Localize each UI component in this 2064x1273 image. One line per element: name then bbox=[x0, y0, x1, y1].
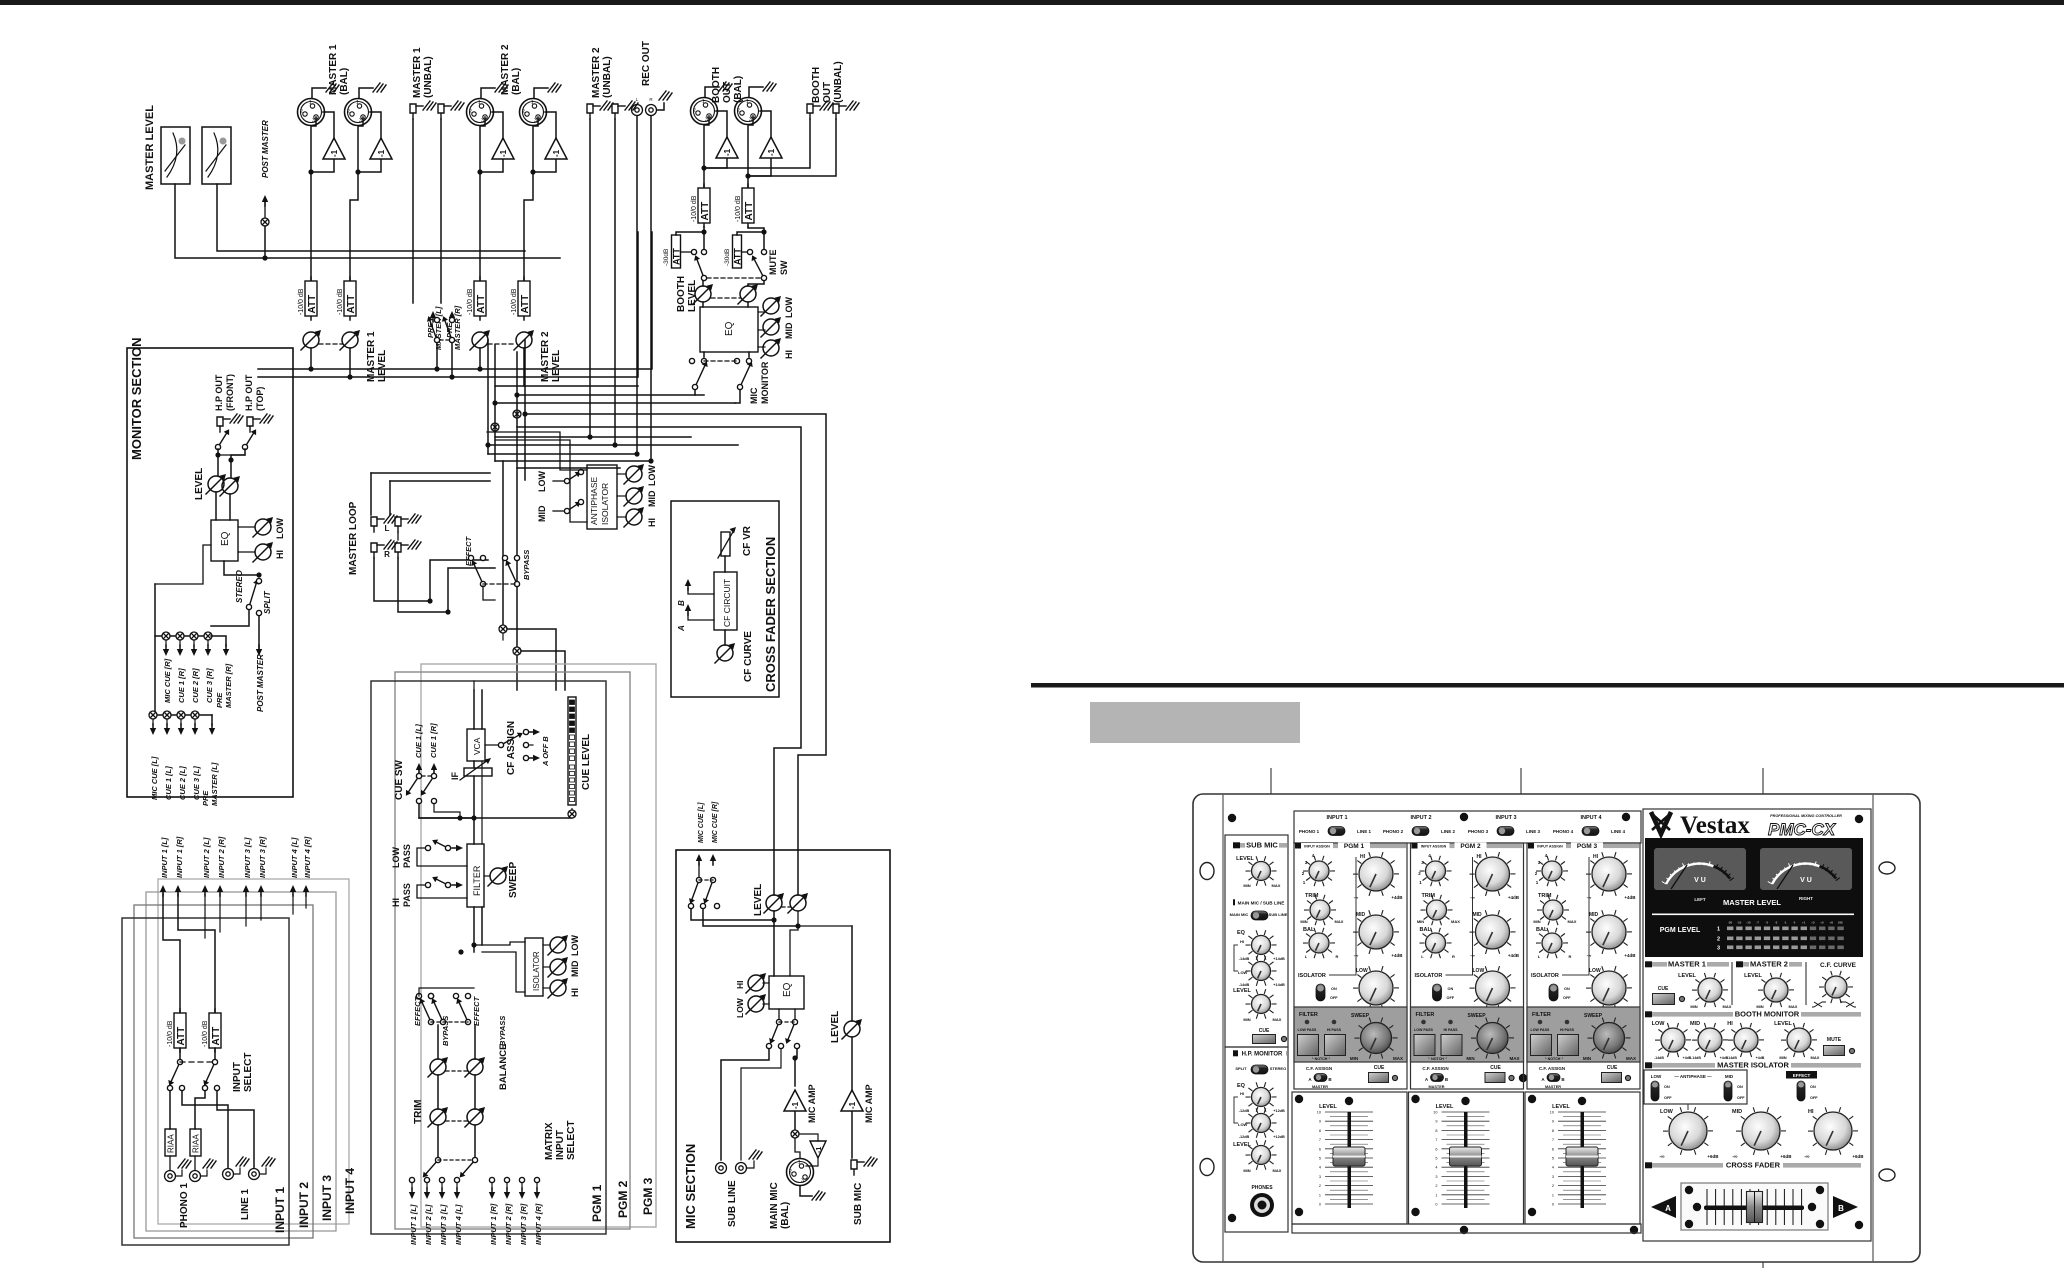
screw fader PGM3 tl bbox=[1528, 1095, 1536, 1103]
svg-text:H.P OUT: H.P OUT bbox=[244, 374, 254, 411]
svg-text:+4dB: +4dB bbox=[1391, 953, 1403, 958]
led master1 cue bbox=[1679, 996, 1684, 1001]
svg-text:+12dB: +12dB bbox=[1273, 1135, 1285, 1139]
svg-text:SUB LINE: SUB LINE bbox=[1269, 912, 1288, 917]
screw bottom-mid2 bbox=[1630, 1226, 1638, 1234]
bus wire 437 bbox=[495, 436, 691, 438]
wire bbox=[411, 1183, 413, 1189]
knob PGM3 SWEEP bbox=[1588, 1018, 1631, 1059]
svg-text:SUB MIC: SUB MIC bbox=[1246, 841, 1278, 850]
wire cue out R bbox=[434, 804, 460, 818]
svg-text:1: 1 bbox=[309, 100, 312, 106]
svg-text:LINE 1: LINE 1 bbox=[1357, 829, 1372, 834]
cross fader knob bbox=[1747, 1192, 1763, 1223]
wire pgm effect up bbox=[419, 988, 474, 996]
svg-text:-12dB: -12dB bbox=[1239, 1109, 1250, 1113]
svg-text:MAX: MAX bbox=[1510, 1056, 1520, 1061]
wire eq down bbox=[224, 561, 259, 575]
svg-text:-1: -1 bbox=[767, 148, 776, 156]
filter led lowpass PGM2 bbox=[1421, 1020, 1426, 1025]
svg-text:(BAL): (BAL) bbox=[511, 68, 522, 95]
led PGM2 cue bbox=[1509, 1075, 1514, 1080]
svg-text:MAX: MAX bbox=[1393, 1056, 1403, 1061]
wire meter R feed bbox=[217, 184, 525, 251]
knob SUB MIC LEVEL bbox=[1246, 856, 1277, 886]
svg-text:7: 7 bbox=[1552, 1138, 1554, 1142]
screw fader PGM2 t bbox=[1461, 1097, 1469, 1105]
svg-text:+4dB: +4dB bbox=[1508, 953, 1520, 958]
wire loop down R bbox=[398, 558, 448, 612]
svg-text:MASTER 1: MASTER 1 bbox=[366, 331, 377, 382]
matrix contact INPUT 1 [L] bbox=[409, 1177, 414, 1182]
pot monitor eq HI bbox=[253, 542, 273, 562]
RIAA box R bbox=[190, 1129, 201, 1156]
connector MASTER 2 BAL XLR-R bbox=[520, 99, 547, 126]
svg-text:PHONO 1: PHONO 1 bbox=[179, 1183, 190, 1228]
svg-text:MIN: MIN bbox=[1583, 1056, 1591, 1061]
INPUT 1 box bbox=[122, 918, 289, 1245]
wire eq hi bbox=[238, 551, 255, 553]
Vestax logo mark bbox=[1651, 812, 1671, 834]
PGM 3 fader ticks bbox=[1550, 1111, 1606, 1207]
connector H.P OUT FRONT bbox=[217, 417, 230, 432]
svg-text:LEVEL: LEVEL bbox=[1233, 988, 1251, 994]
button PGM1 CUE bbox=[1368, 1072, 1389, 1083]
svg-text:10: 10 bbox=[1317, 1111, 1321, 1115]
switch pre/post R bbox=[442, 316, 455, 343]
svg-text:LEVEL: LEVEL bbox=[753, 884, 764, 916]
PGM 2 fader knob bbox=[1450, 1147, 1482, 1166]
svg-text:POST MASTER: POST MASTER bbox=[261, 120, 270, 178]
svg-text:LEFT: LEFT bbox=[1694, 897, 1705, 902]
PGM 2 fader ticks bbox=[1433, 1111, 1489, 1207]
toggle SPLIT/STEREO bbox=[1251, 1065, 1268, 1074]
cue bus to slider bbox=[419, 809, 572, 818]
toggle PHONO4/LINE4 bbox=[1582, 827, 1599, 836]
wire riaa R bbox=[195, 1091, 205, 1129]
svg-text:INPUT 1 [L]: INPUT 1 [L] bbox=[409, 1204, 418, 1245]
svg-text:└ NOTCH ┘: └ NOTCH ┘ bbox=[1311, 1056, 1331, 1061]
svg-text:INPUT 3 [R]: INPUT 3 [R] bbox=[519, 1203, 528, 1245]
cue bus row R bbox=[155, 635, 211, 637]
svg-text:MAX: MAX bbox=[1273, 1017, 1282, 1022]
svg-text:BOOTH: BOOTH bbox=[711, 67, 722, 103]
filter led hipass PGM3 bbox=[1565, 1020, 1570, 1025]
wire mute R down bbox=[748, 281, 764, 286]
wire -30att L out bbox=[681, 251, 692, 253]
CF CIRCUIT box bbox=[714, 572, 737, 630]
svg-text:TRIM: TRIM bbox=[1538, 893, 1552, 899]
svg-text:EQ: EQ bbox=[1237, 1083, 1246, 1089]
wire M2 unbal R bbox=[614, 119, 616, 445]
filter led lowpass PGM1 bbox=[1305, 1020, 1310, 1025]
post master junction bbox=[261, 218, 269, 226]
svg-text:OFF: OFF bbox=[1447, 996, 1455, 1000]
PGM 1 box bbox=[371, 681, 606, 1234]
bus wire antiphase send L bbox=[525, 414, 826, 895]
wire hp join bbox=[218, 454, 245, 456]
PGM 1 fader knob bbox=[1333, 1147, 1365, 1166]
wire loop top L bbox=[371, 472, 490, 474]
wire input1 R down bbox=[178, 894, 215, 1013]
button PGM3 LOW PASS bbox=[1530, 1034, 1552, 1056]
bus wire mic monitor L bbox=[517, 394, 695, 396]
svg-text:LOW: LOW bbox=[735, 997, 745, 1018]
wire bbox=[166, 719, 168, 725]
connector BOOTH OUT BAL L bbox=[691, 98, 718, 125]
terminal INPUT 2 [R] bbox=[217, 885, 223, 896]
wire loop right2 bbox=[448, 568, 495, 612]
gang pgm effect bbox=[431, 1021, 468, 1023]
pot pgm isolator HI bbox=[548, 978, 568, 998]
svg-text:1: 1 bbox=[1552, 1193, 1554, 1197]
terminal MIC CUE [R] bbox=[163, 645, 169, 656]
switch mic monitor L bbox=[692, 361, 707, 389]
wire att-sw R bbox=[214, 1048, 216, 1059]
INPUT 2 box bbox=[134, 905, 313, 1238]
svg-text:MASTER LEVEL: MASTER LEVEL bbox=[1723, 898, 1781, 907]
svg-text:BYPASS: BYPASS bbox=[522, 550, 531, 580]
gang mic monitor bbox=[704, 360, 737, 362]
terminal B bbox=[685, 579, 691, 590]
svg-text:+6dB: +6dB bbox=[1707, 1154, 1719, 1159]
gang booth level bbox=[711, 297, 740, 299]
wire XLR M1L bbox=[311, 117, 316, 281]
pot pgm isolator LOW bbox=[548, 935, 568, 955]
PGM LEVEL led meter bbox=[1717, 921, 1844, 952]
wire booth eq in L bbox=[702, 302, 704, 307]
screw fader PGM1 t bbox=[1345, 1097, 1353, 1105]
svg-text:R: R bbox=[1452, 954, 1455, 959]
wire loop vert1 bbox=[370, 473, 372, 515]
pot MASTER 2 LEVEL L bbox=[470, 330, 490, 350]
PGM ISOLATOR box bbox=[525, 938, 543, 996]
svg-text:1: 1 bbox=[702, 99, 705, 105]
svg-text:-1: -1 bbox=[330, 149, 339, 157]
isolator link PGM3 bbox=[1562, 857, 1589, 975]
svg-text:ATT: ATT bbox=[700, 202, 711, 221]
cue junction MIC CUE [L] bbox=[149, 711, 157, 719]
CROSS FADER SECTION box bbox=[671, 501, 779, 697]
connector MAIN MIC BAL XLR bbox=[787, 1159, 814, 1186]
gang input select bbox=[180, 1061, 215, 1063]
cue junction CUE 1 [R] bbox=[176, 632, 184, 640]
svg-text:3: 3 bbox=[1717, 946, 1720, 952]
connector MASTER 1 BAL XLR-L bbox=[298, 99, 325, 126]
svg-text:-14dB: -14dB bbox=[1239, 957, 1250, 961]
MONITOR SECTION box bbox=[127, 348, 293, 797]
isolator link PGM1 bbox=[1329, 857, 1356, 975]
svg-text:MAX: MAX bbox=[1723, 1004, 1732, 1009]
svg-text:INPUT 2 [L]: INPUT 2 [L] bbox=[202, 837, 211, 878]
svg-text:EQ: EQ bbox=[220, 531, 231, 546]
knob PGM2 EQ HI bbox=[1470, 852, 1516, 896]
matrix contact INPUT 4 [R] bbox=[534, 1177, 539, 1182]
svg-text:2: 2 bbox=[1717, 937, 1720, 943]
svg-text:MIN: MIN bbox=[1243, 883, 1250, 888]
meter MASTER LEVEL L bbox=[161, 127, 190, 184]
svg-text:-1: -1 bbox=[552, 149, 561, 157]
MIC SECTION box bbox=[676, 850, 890, 1242]
svg-text:ON: ON bbox=[1737, 1085, 1743, 1089]
svg-text:10: 10 bbox=[1550, 1111, 1554, 1115]
H.P. MONITOR header bbox=[1233, 1051, 1287, 1056]
wire curve bbox=[724, 630, 726, 645]
wire mic cue routing bbox=[691, 909, 774, 920]
svg-text:MIN: MIN bbox=[1690, 1004, 1697, 1009]
svg-text:MAIN MIC / SUB LINE: MAIN MIC / SUB LINE bbox=[1238, 901, 1285, 906]
wire trim-bal R bbox=[474, 1075, 476, 1109]
VU meter black panel bbox=[1645, 838, 1863, 957]
svg-text:OUT: OUT bbox=[822, 82, 833, 103]
screw fader PGM1 tl bbox=[1295, 1095, 1303, 1103]
bus wire antiphase send R bbox=[517, 427, 801, 895]
svg-text:1: 1 bbox=[1319, 1193, 1321, 1197]
svg-text:CUE: CUE bbox=[1490, 1065, 1501, 1071]
-30dB ATT L stub bbox=[676, 232, 704, 235]
svg-text:-10/0 dB: -10/0 dB bbox=[337, 288, 344, 315]
connector LINE1 L bbox=[223, 1169, 234, 1180]
svg-text:-∞: -∞ bbox=[1587, 953, 1592, 958]
terminal POST MASTER monitor bbox=[256, 645, 262, 656]
amplifier MASTER1 L bbox=[323, 138, 345, 159]
wire anti mid bbox=[617, 495, 626, 497]
amplifier mic -1 bbox=[810, 1141, 826, 1158]
connector SUB LINE L bbox=[716, 1163, 727, 1174]
rack slot hole bottom-left bbox=[1200, 1159, 1214, 1176]
terminal INPUT 3 [L] bbox=[243, 885, 249, 896]
terminal INPUT 3 [R] bbox=[258, 885, 264, 896]
switch matrix R bbox=[460, 1157, 478, 1177]
rack slot hole top-right bbox=[1879, 862, 1895, 874]
connector BOOTH UNBAL L bbox=[807, 104, 820, 119]
svg-text:STEREO: STEREO bbox=[235, 569, 244, 603]
wire micmon R out bbox=[735, 390, 740, 403]
rack ear line left bbox=[1222, 794, 1224, 1262]
PGM 2 fader box bbox=[1409, 1092, 1524, 1224]
cue junction CUE 2 [L] bbox=[177, 711, 185, 719]
amplifier MIC AMP sub bbox=[841, 1090, 863, 1111]
svg-text:INPUT 1: INPUT 1 bbox=[1326, 815, 1347, 821]
svg-text:LOW: LOW bbox=[391, 847, 401, 868]
svg-text:BALANCE: BALANCE bbox=[498, 1044, 509, 1090]
svg-text:C.F. CURVE: C.F. CURVE bbox=[1820, 962, 1857, 969]
svg-text:PGM LEVEL: PGM LEVEL bbox=[1660, 927, 1701, 934]
wire M1 unbal L bbox=[412, 119, 414, 303]
wire antiphase top1 bbox=[487, 432, 560, 440]
svg-text:REC OUT: REC OUT bbox=[641, 41, 652, 86]
wire mic level-eq2 bbox=[790, 911, 798, 976]
wire pgm1 L chain bbox=[473, 690, 475, 729]
svg-text:CUE LEVEL: CUE LEVEL bbox=[581, 734, 592, 790]
wire mic level-eq bbox=[773, 911, 775, 976]
svg-text:1: 1 bbox=[798, 1160, 801, 1166]
pot antiphase MID bbox=[624, 486, 644, 506]
switch pgm effect R2 bbox=[456, 998, 470, 1024]
wire split down bbox=[258, 616, 260, 649]
svg-text:C.F. ASSIGN: C.F. ASSIGN bbox=[1306, 1066, 1332, 1071]
led sub mic cue bbox=[1281, 1036, 1286, 1041]
svg-text:0: 0 bbox=[1435, 1203, 1437, 1207]
gang mic level bbox=[782, 906, 790, 908]
terminal PRE MASTER [L] bbox=[209, 724, 215, 735]
button PGM3 CUE bbox=[1601, 1072, 1622, 1083]
svg-text:LINE 1: LINE 1 bbox=[240, 1188, 251, 1220]
svg-text:ISOLATOR: ISOLATOR bbox=[600, 483, 610, 525]
cue feed wire L bbox=[502, 633, 504, 640]
svg-text:-1: -1 bbox=[499, 149, 508, 157]
svg-text:3: 3 bbox=[1552, 1175, 1554, 1179]
svg-text:MIN: MIN bbox=[1533, 919, 1540, 924]
svg-text:2: 2 bbox=[469, 109, 472, 115]
button PGM1 LOW PASS bbox=[1297, 1034, 1319, 1056]
terminal MIC CUE [L] bbox=[150, 724, 156, 735]
wire loop top R bbox=[390, 480, 490, 482]
svg-text:LOW: LOW bbox=[537, 471, 547, 492]
screw fader PGM3 bl bbox=[1528, 1208, 1536, 1216]
amplifier MASTER2 L bbox=[492, 138, 514, 159]
svg-text:OFF: OFF bbox=[1664, 1096, 1672, 1100]
terminal mic cue L bbox=[696, 854, 702, 865]
svg-text:-1: -1 bbox=[816, 1147, 823, 1153]
wire XLR M2R bbox=[524, 117, 538, 281]
svg-text:8: 8 bbox=[1435, 1129, 1437, 1133]
IF resistor bbox=[464, 768, 492, 776]
svg-text:-∞: -∞ bbox=[1804, 1154, 1810, 1160]
terminal CUE 2 [L] bbox=[178, 724, 184, 735]
svg-text:HI: HI bbox=[647, 518, 657, 527]
bus wire rec/master2 bbox=[495, 385, 638, 387]
svg-text:+4dB: +4dB bbox=[1624, 895, 1636, 900]
svg-text:HI: HI bbox=[275, 550, 285, 559]
svg-text:LEVEL: LEVEL bbox=[1678, 973, 1696, 979]
INPUT 3 selector group bbox=[1468, 815, 1541, 836]
svg-text:INPUT: INPUT bbox=[555, 1130, 566, 1160]
svg-text:+5: +5 bbox=[1820, 921, 1824, 925]
svg-text:LOW PASS: LOW PASS bbox=[1414, 1028, 1434, 1032]
svg-text:-∞: -∞ bbox=[1470, 895, 1475, 900]
ground rec out bbox=[657, 103, 664, 110]
svg-text:4: 4 bbox=[1435, 1166, 1437, 1170]
pot pgm trim L bbox=[428, 1107, 448, 1127]
wire M2L to bus bbox=[479, 348, 481, 369]
wire bbox=[456, 1183, 458, 1189]
booth EQ box bbox=[700, 307, 758, 352]
pot booth eq LOW bbox=[761, 296, 781, 316]
svg-text:(BAL): (BAL) bbox=[780, 1202, 791, 1229]
terminal INPUT 1 [R] bbox=[175, 885, 181, 896]
svg-text:ATT: ATT bbox=[176, 1027, 187, 1046]
svg-text:INPUT 3 [R]: INPUT 3 [R] bbox=[258, 836, 267, 878]
-30dB ATT R stub bbox=[737, 232, 764, 235]
svg-text:-3: -3 bbox=[1775, 921, 1778, 925]
svg-text:MUTE: MUTE bbox=[768, 250, 778, 276]
svg-text:EFFECT: EFFECT bbox=[464, 535, 473, 566]
screw xfader tl bbox=[1685, 1186, 1693, 1194]
wire cf off bbox=[529, 744, 533, 746]
svg-text:-10/0 dB: -10/0 dB bbox=[691, 195, 698, 222]
terminal INPUT 1 [L] bbox=[160, 885, 166, 896]
toggle PHONO1/LINE1 bbox=[1328, 827, 1345, 836]
svg-text:+4dB: +4dB bbox=[1508, 895, 1520, 900]
svg-text:PHONO 3: PHONO 3 bbox=[1468, 829, 1489, 834]
svg-text:INPUT 4 [R]: INPUT 4 [R] bbox=[303, 836, 312, 878]
svg-text:INPUT 2: INPUT 2 bbox=[297, 1182, 311, 1228]
wire post master link bbox=[264, 200, 266, 218]
terminal CUE 3 [R] bbox=[205, 645, 211, 656]
terminal cue1 R bbox=[431, 763, 437, 774]
ANTIPHASE ISOLATOR box bbox=[587, 465, 617, 529]
switch mic cue L bbox=[689, 877, 702, 904]
svg-text:-∞: -∞ bbox=[1470, 953, 1475, 958]
separator M2/CF bbox=[1805, 962, 1807, 1005]
top page border bar bbox=[0, 0, 2064, 5]
svg-text:LEVEL: LEVEL bbox=[1774, 1021, 1792, 1027]
attenuator ATT M2-L -10/0dB bbox=[467, 277, 487, 320]
svg-text:FILTER: FILTER bbox=[1532, 1012, 1551, 1018]
switch hp front bbox=[215, 429, 229, 449]
PGM 2 fader track bbox=[1464, 1112, 1468, 1208]
PGM 2 box bbox=[395, 672, 630, 1229]
wire att R jog bbox=[748, 227, 764, 249]
terminal cf B bbox=[529, 755, 540, 761]
screw fader PGM3 t bbox=[1578, 1097, 1586, 1105]
separator M1/M2 bbox=[1731, 962, 1733, 1005]
gang mute sw bbox=[707, 277, 761, 279]
toggle PGM3 ISOLATOR ON/OFF bbox=[1549, 984, 1558, 1001]
cross fader plate bbox=[1681, 1183, 1828, 1230]
CF VR resistor bbox=[721, 532, 730, 556]
wire XLR M1R bbox=[350, 117, 363, 281]
svg-text:CUE: CUE bbox=[1374, 1065, 1385, 1071]
svg-text:EQ: EQ bbox=[1237, 930, 1246, 936]
knob PGM1 TRIM bbox=[1304, 895, 1336, 925]
svg-text:(FRONT): (FRONT) bbox=[225, 374, 235, 411]
switch cue R bbox=[421, 773, 437, 795]
svg-text:A OFF B: A OFF B bbox=[541, 736, 550, 767]
attenuator booth -30dB R bbox=[733, 235, 742, 268]
svg-text:6: 6 bbox=[1319, 1147, 1321, 1151]
connector BOOTH OUT BAL R bbox=[735, 98, 762, 125]
wire antiphase in2 bbox=[570, 448, 587, 522]
connector SUB MIC bbox=[851, 1160, 864, 1175]
wire mic cue routing2 bbox=[703, 909, 798, 926]
switch cue L bbox=[406, 773, 422, 795]
svg-text:MIC CUE [R]: MIC CUE [R] bbox=[712, 801, 719, 843]
ground MASTER2 XLR-R bbox=[534, 88, 548, 98]
led booth mute bbox=[1849, 1048, 1854, 1053]
svg-text:BOOTH MONITOR: BOOTH MONITOR bbox=[1735, 1010, 1800, 1019]
wire -30att R out bbox=[742, 251, 748, 253]
bus wire 468 bbox=[517, 467, 620, 469]
wire post master bbox=[264, 226, 266, 258]
svg-text:ATT: ATT bbox=[211, 1027, 222, 1046]
wire prepost R down bbox=[451, 343, 453, 377]
connector MASTER 1 UNBAL R bbox=[438, 104, 451, 119]
bus vertical C bbox=[516, 352, 518, 690]
amplifier MIC AMP main bbox=[784, 1090, 806, 1111]
ground MASTER1 XLR-R bbox=[359, 88, 373, 98]
fold marker line bottom 1 bbox=[1270, 1231, 1272, 1262]
wire submic-amp bbox=[851, 1037, 853, 1090]
svg-text:A: A bbox=[677, 625, 686, 632]
PGM 2 channel strip bbox=[1409, 843, 1524, 1225]
svg-text:OFF: OFF bbox=[1563, 996, 1571, 1000]
vu panel divider line bbox=[1652, 914, 1854, 916]
svg-text:3: 3 bbox=[801, 1178, 804, 1184]
center block bottom strip bbox=[1292, 1224, 1641, 1233]
svg-text:MASTER 2: MASTER 2 bbox=[591, 47, 602, 98]
